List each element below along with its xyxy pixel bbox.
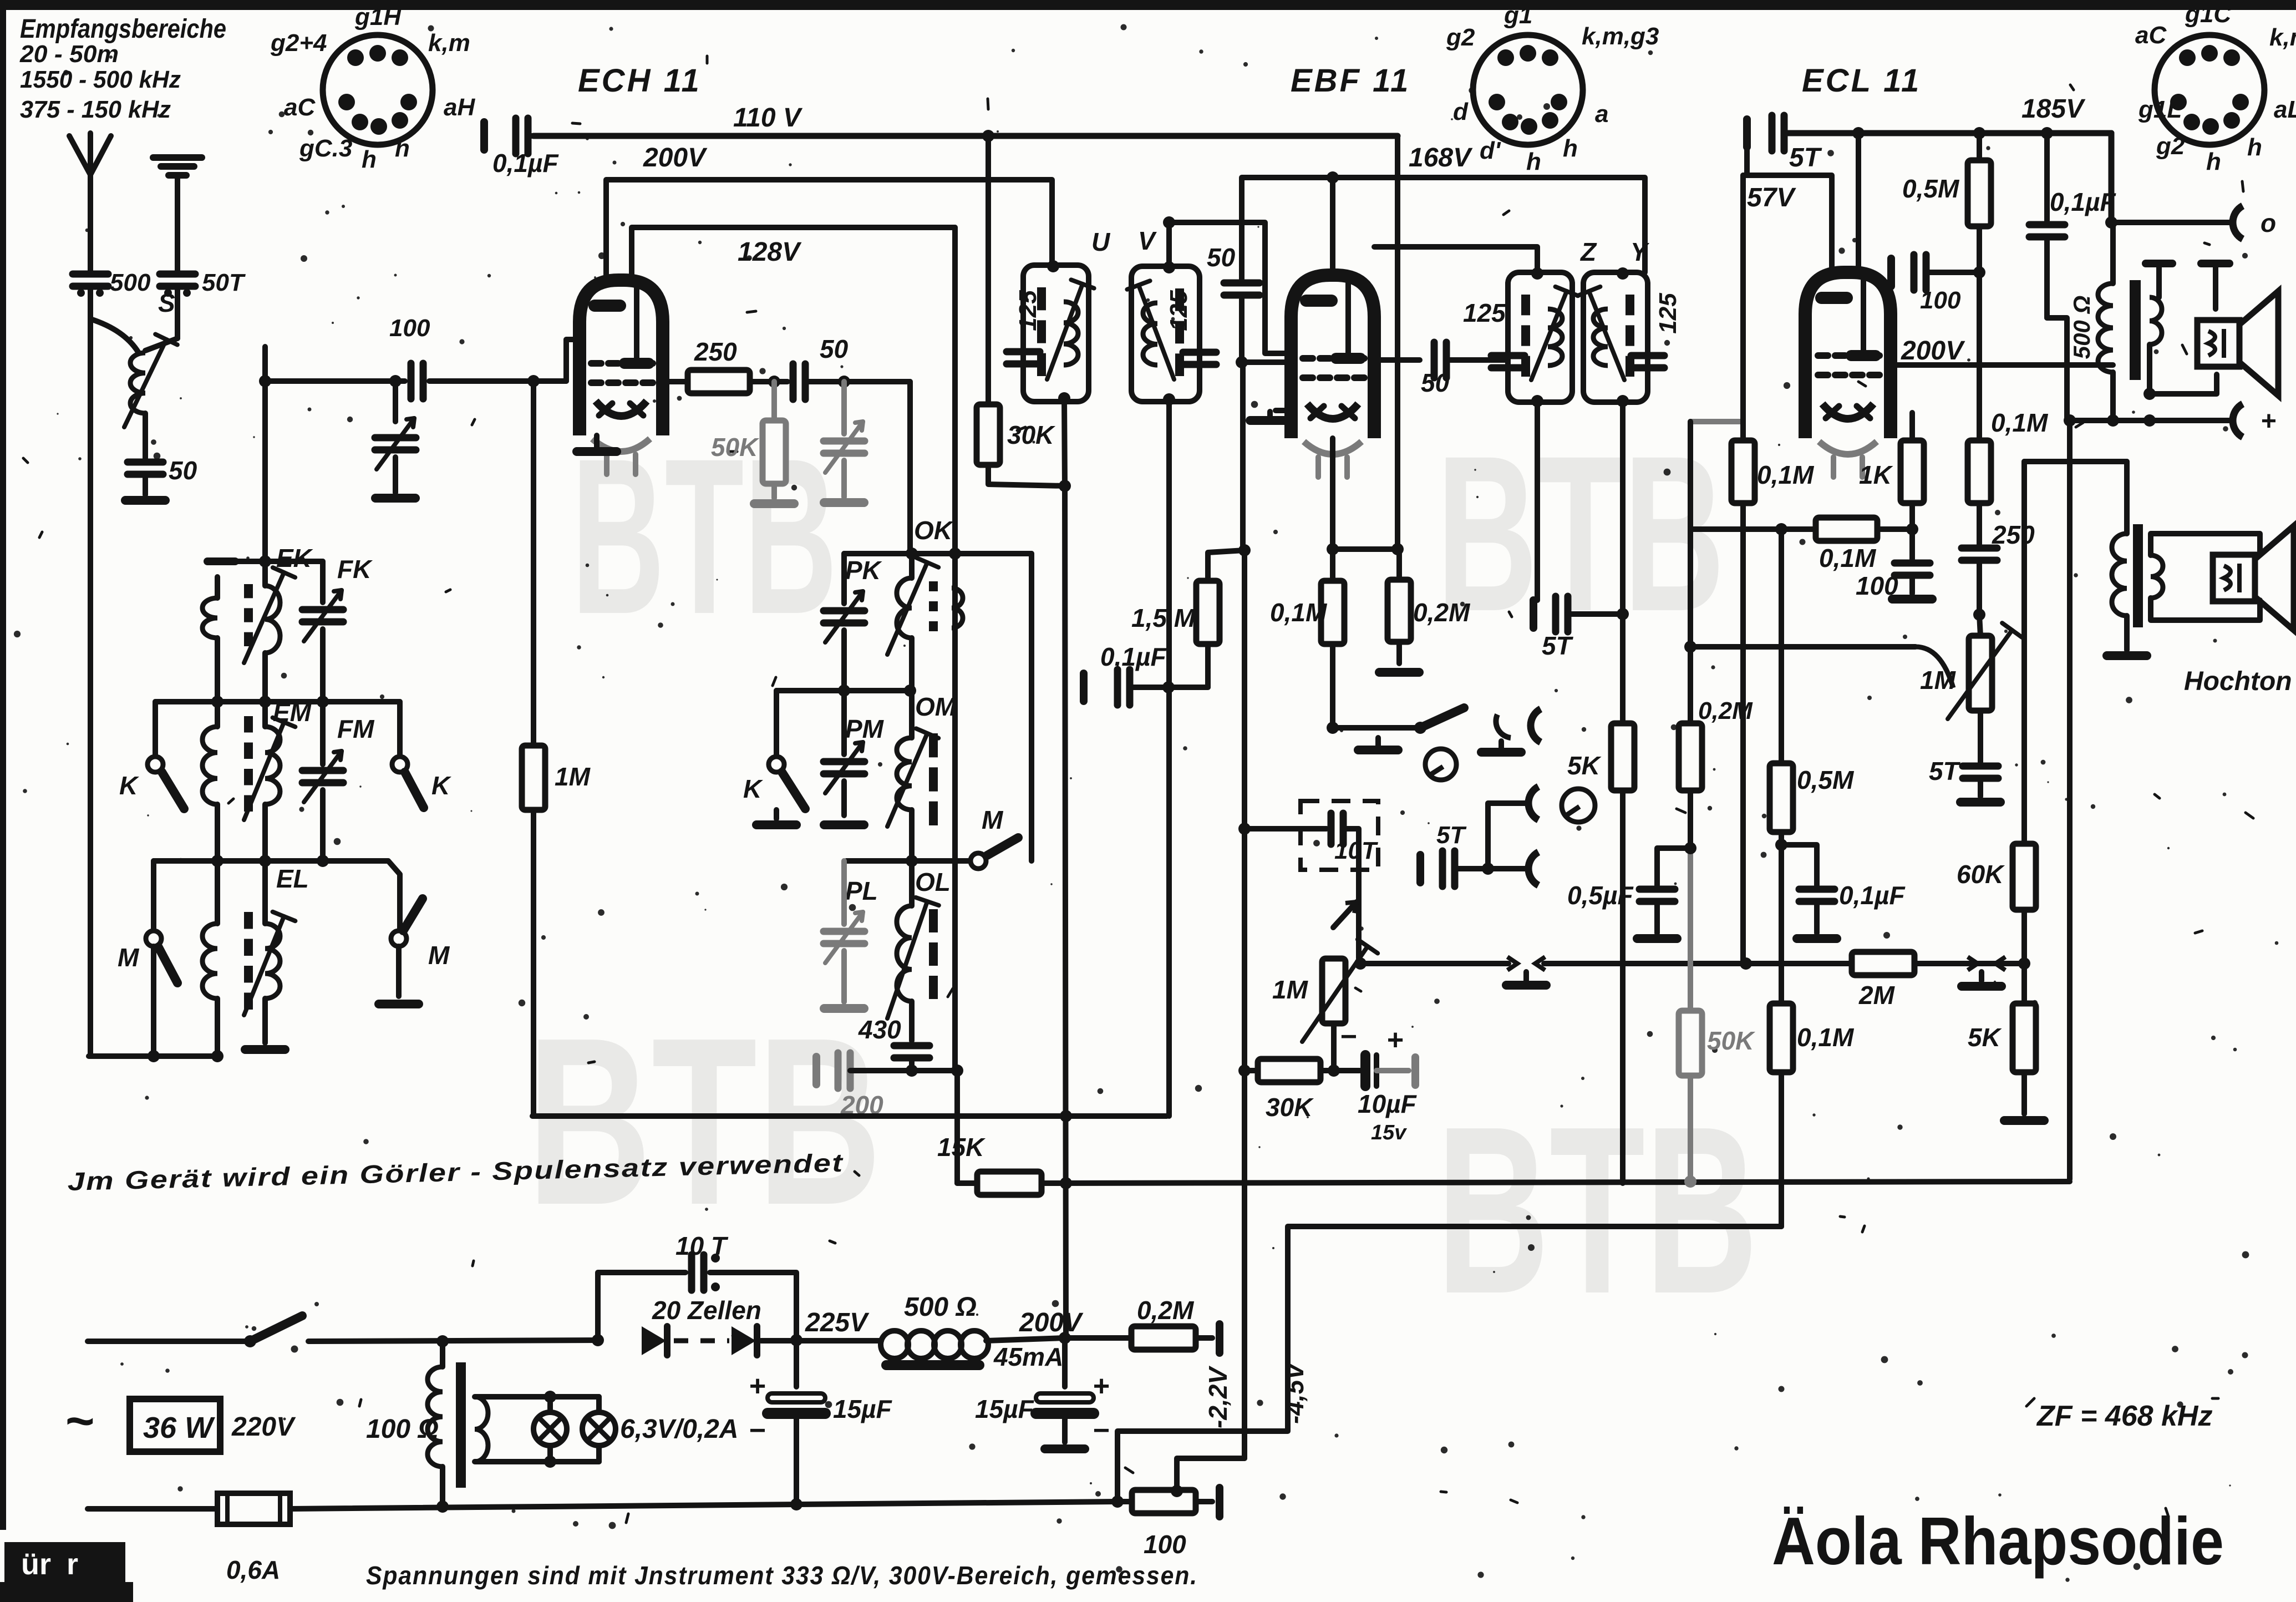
transformer EK bbox=[202, 561, 295, 702]
svg-text:36 W: 36 W bbox=[143, 1411, 215, 1444]
transformer OM bbox=[887, 691, 938, 861]
svg-text:0,1µF: 0,1µF bbox=[492, 149, 559, 178]
label 50 coupling bbox=[820, 334, 849, 363]
resistor 0,2M psu bbox=[1065, 1324, 1220, 1353]
box 36W bbox=[130, 1399, 220, 1452]
resistor 250 anode bbox=[662, 370, 750, 393]
resistor 60K bbox=[2013, 844, 2036, 970]
label 50K bbox=[711, 433, 759, 462]
wire gnd stub tone bbox=[1958, 957, 2024, 986]
svg-text:1M: 1M bbox=[555, 762, 591, 791]
wire K-row bbox=[155, 696, 400, 708]
label 5T fb bbox=[1789, 143, 1822, 173]
label 200V bbox=[643, 143, 708, 173]
wire AVC line to pot bbox=[1684, 641, 1953, 688]
wire screen drop bbox=[1395, 136, 1400, 549]
svg-text:k,m: k,m bbox=[428, 29, 470, 57]
label 50 bbox=[169, 456, 197, 485]
fuse 0,6A bbox=[217, 1493, 290, 1524]
pickup symbol Q1 bbox=[1425, 749, 1456, 780]
svg-text:110 V: 110 V bbox=[733, 103, 803, 133]
svg-text:200V: 200V bbox=[1901, 336, 1965, 366]
label 0,1M tone bbox=[1991, 408, 2049, 437]
wire anode 200V bbox=[1891, 362, 2113, 368]
label 0,1uF bbox=[492, 149, 559, 178]
svg-text:Hochton: Hochton bbox=[2184, 667, 2292, 696]
label 5K bbox=[1567, 751, 1602, 780]
svg-text:0,2M: 0,2M bbox=[1137, 1296, 1195, 1325]
svg-text:ZF = 468 kHz: ZF = 468 kHz bbox=[2036, 1400, 2212, 1432]
wire sec to speaker bbox=[2143, 344, 2217, 400]
svg-text:h: h bbox=[2206, 148, 2221, 175]
diode D1 bbox=[642, 1326, 667, 1355]
svg-text:+: + bbox=[1093, 1370, 1110, 1402]
svg-text:0,5M: 0,5M bbox=[1797, 765, 1855, 794]
svg-text:OM: OM bbox=[915, 692, 957, 721]
svg-text:15K: 15K bbox=[937, 1133, 986, 1162]
wire 128V rail bbox=[632, 227, 955, 280]
wire right return bbox=[2067, 420, 2073, 1179]
transformer OK bbox=[887, 554, 963, 691]
ground sw2 bbox=[1481, 741, 1521, 752]
svg-text:ECL 11: ECL 11 bbox=[1802, 63, 1921, 99]
svg-text:U: U bbox=[1091, 227, 1111, 256]
trimmer PM bbox=[824, 691, 865, 825]
svg-text:EK: EK bbox=[276, 544, 313, 572]
label 225V bbox=[805, 1308, 870, 1337]
wire pot bottom bbox=[1328, 1023, 1340, 1077]
capacitor 100 cathode bbox=[1892, 529, 1932, 599]
svg-text:g2: g2 bbox=[2156, 133, 2185, 160]
label 1M volume bbox=[1272, 975, 1309, 1004]
svg-text:h: h bbox=[2247, 134, 2262, 161]
capacitor 430 bbox=[894, 1046, 929, 1077]
svg-text:0,1µF: 0,1µF bbox=[1839, 881, 1906, 910]
svg-text:EL: EL bbox=[276, 864, 309, 893]
earth ground antenna bbox=[153, 158, 202, 272]
svg-text:100: 100 bbox=[1856, 571, 1898, 600]
svg-text:ür: ür bbox=[21, 1548, 51, 1581]
capacitor 5T feedback bbox=[1747, 115, 1797, 151]
svg-text:−: − bbox=[749, 1415, 766, 1447]
svg-text:g2+4: g2+4 bbox=[270, 29, 327, 57]
wire Z bottom to 5T bbox=[1533, 402, 1629, 632]
label 30K bbox=[1007, 420, 1055, 449]
svg-text:375 - 150 kHz: 375 - 150 kHz bbox=[20, 96, 171, 123]
wire 168V rail bbox=[1242, 171, 1645, 272]
wire EBF anode top bbox=[1330, 178, 1335, 275]
label Y bbox=[1630, 237, 1650, 266]
svg-text:50: 50 bbox=[820, 334, 849, 363]
capacitor 10uF bbox=[1334, 1055, 1415, 1086]
label 50 grid bbox=[1207, 243, 1236, 272]
svg-text:10µF: 10µF bbox=[1358, 1089, 1418, 1118]
svg-text:57V: 57V bbox=[1747, 183, 1796, 212]
wire Z/Y return bbox=[1690, 422, 1743, 647]
resistor 0,2M screen bbox=[1379, 549, 1419, 672]
capacitor 5T phono bbox=[1420, 851, 1494, 886]
svg-text:60K: 60K bbox=[1957, 860, 2005, 889]
wire bottom row antenna bbox=[89, 1050, 223, 1062]
label 500ohm choke bbox=[904, 1292, 977, 1322]
potentiometer 1M tone bbox=[1948, 615, 2022, 719]
label plus 2 bbox=[1093, 1370, 1110, 1402]
wire ECL g 185V bbox=[1856, 133, 1861, 272]
resistor 30K AVC bbox=[1238, 1059, 1334, 1082]
svg-text:aC: aC bbox=[2135, 22, 2167, 49]
phono arrow bbox=[1333, 870, 1359, 956]
label 0,2M AVC bbox=[1698, 697, 1753, 724]
svg-text:430: 430 bbox=[858, 1015, 901, 1044]
speaker1 field T2 bbox=[2201, 263, 2229, 309]
label -2,2V bbox=[1203, 1366, 1232, 1428]
label 10T bbox=[1334, 837, 1378, 864]
resistor 1K cathode bbox=[1901, 413, 1924, 535]
switch row detector bbox=[1327, 708, 1541, 742]
switch K left bbox=[119, 702, 184, 809]
wire grid row bbox=[265, 339, 581, 381]
svg-text:1M: 1M bbox=[1272, 975, 1309, 1004]
svg-text:Y: Y bbox=[1630, 237, 1650, 266]
lamp 2 bbox=[582, 1412, 616, 1446]
wire PK row bbox=[776, 685, 916, 697]
svg-text:BTB: BTB bbox=[527, 988, 882, 1255]
label minus 1 bbox=[749, 1415, 766, 1447]
svg-text:0,1M: 0,1M bbox=[1991, 408, 2049, 437]
svg-text:20 Zellen: 20 Zellen bbox=[652, 1296, 761, 1325]
label 50 out bbox=[1421, 368, 1450, 397]
resistor 0,1M cathode bbox=[1321, 549, 1344, 728]
wire Z top bbox=[1374, 247, 1537, 272]
label 125 V bbox=[1165, 290, 1192, 331]
svg-text:250: 250 bbox=[1992, 520, 2035, 549]
capacitor 10T bbox=[1238, 813, 1359, 870]
switch K right bbox=[392, 702, 451, 808]
socket EBF11 base diagram bbox=[1473, 35, 1583, 145]
svg-text:15v: 15v bbox=[1371, 1121, 1407, 1144]
label 5T tone bbox=[1929, 757, 1961, 785]
socket EBF11 pin labels bbox=[1446, 2, 1659, 175]
wire Y bottom down bbox=[1620, 402, 1626, 723]
label EBF 11 bbox=[1291, 63, 1410, 99]
svg-text:ECH 11: ECH 11 bbox=[578, 63, 702, 99]
label 0,5M avc2 bbox=[1797, 765, 1855, 794]
svg-text:K: K bbox=[431, 771, 451, 800]
trimmer padder gray bbox=[824, 382, 865, 503]
wire hochton loop bbox=[2151, 534, 2260, 620]
svg-text:+: + bbox=[749, 1370, 766, 1402]
wire bias drop bbox=[1242, 550, 1247, 1071]
svg-text:BTB: BTB bbox=[1436, 1077, 1758, 1344]
capacitor 0,5uF bbox=[1637, 848, 1690, 939]
choke 500ohm bbox=[881, 1331, 988, 1370]
label plus 10uF bbox=[1387, 1024, 1404, 1056]
diode D2 bbox=[732, 1326, 757, 1355]
capacitor 250 bbox=[1962, 548, 1997, 621]
label EK bbox=[276, 544, 313, 572]
wire 60K top bbox=[2021, 462, 2027, 844]
svg-text:o: o bbox=[2261, 209, 2276, 237]
svg-text:1,5 M: 1,5 M bbox=[1131, 604, 1196, 632]
svg-text:Äola Rhapsodie: Äola Rhapsodie bbox=[1772, 1503, 2224, 1579]
tube ECL11 bbox=[1805, 272, 1891, 477]
label 1,5M bbox=[1131, 604, 1196, 632]
capacitor 200 padder bbox=[816, 1053, 963, 1088]
svg-text:6,3V/0,2A: 6,3V/0,2A bbox=[620, 1415, 738, 1444]
svg-text:250: 250 bbox=[694, 337, 737, 366]
IF transformer U bbox=[1007, 260, 1094, 404]
svg-text:OK: OK bbox=[914, 516, 954, 545]
label OL bbox=[915, 868, 951, 896]
label 1M bbox=[555, 762, 591, 791]
wire U bottom to 30K node bbox=[1064, 398, 1065, 486]
svg-text:5T: 5T bbox=[1789, 143, 1822, 173]
wire bus A bbox=[532, 1110, 1167, 1122]
label 100 cathode bbox=[1856, 571, 1898, 600]
label 0,1M ecl bbox=[1757, 460, 1815, 489]
svg-text:185V: 185V bbox=[2021, 94, 2086, 124]
terminal T antenna coil bbox=[207, 555, 323, 567]
label OM bbox=[915, 692, 957, 721]
svg-text:-4,5V: -4,5V bbox=[1280, 1361, 1309, 1424]
svg-text:0,1M: 0,1M bbox=[1757, 460, 1815, 489]
svg-text:g1C: g1C bbox=[2185, 1, 2232, 28]
node OK bbox=[844, 516, 1032, 560]
wire 1M grid leak drop bbox=[527, 375, 540, 746]
wire choke to 200V bbox=[986, 1338, 1065, 1341]
wire main B+ drop bbox=[1059, 486, 1071, 1344]
wire tuned circuit drop bbox=[259, 347, 271, 561]
resistor 30K bbox=[977, 136, 1071, 492]
label -4,5V bbox=[1280, 1361, 1309, 1424]
IF transformer Y bbox=[1578, 267, 1664, 407]
label 0,2M psu bbox=[1137, 1296, 1195, 1325]
tube ECH11 bbox=[580, 280, 663, 474]
capacitor 50 to ground bbox=[125, 462, 165, 500]
svg-text:EBF 11: EBF 11 bbox=[1291, 63, 1410, 99]
capacitor 5T tone bbox=[1960, 711, 2000, 802]
svg-text:g2: g2 bbox=[1446, 24, 1475, 51]
svg-text:125: 125 bbox=[1463, 298, 1506, 327]
label EM bbox=[273, 698, 312, 727]
label 45mA bbox=[993, 1342, 1063, 1371]
svg-text:0,1µF: 0,1µF bbox=[1100, 642, 1167, 671]
svg-text:-2,2V: -2,2V bbox=[1203, 1366, 1232, 1428]
speaker 2 hochton bbox=[2213, 526, 2294, 630]
svg-text:g1L: g1L bbox=[2138, 96, 2182, 123]
label 250 bbox=[1992, 520, 2035, 549]
svg-text:d: d bbox=[1453, 98, 1469, 125]
lamp 1 bbox=[534, 1412, 567, 1446]
wire mains top bbox=[88, 1316, 604, 1347]
svg-text:5T: 5T bbox=[1929, 757, 1961, 785]
wire mains bottom bbox=[88, 1506, 217, 1512]
svg-text:1M: 1M bbox=[1920, 666, 1957, 694]
label 0,1M bias bbox=[1797, 1023, 1855, 1052]
title Aola Rhapsodie bbox=[1772, 1503, 2224, 1579]
resistor 5K bbox=[1611, 723, 1634, 1183]
resistor 0,1M tone bbox=[1968, 272, 1991, 544]
wire osc line down bbox=[955, 554, 957, 1183]
socket ECL11 base diagram bbox=[2155, 35, 2264, 145]
svg-text:50: 50 bbox=[1421, 368, 1450, 397]
speaker 1 bbox=[2197, 291, 2278, 396]
label 128V bbox=[738, 237, 802, 267]
svg-text:Z: Z bbox=[1579, 237, 1597, 266]
wire 1M to AVC bus bbox=[531, 810, 536, 1116]
label 430 bbox=[858, 1015, 901, 1044]
capacitor 100 coupling2 bbox=[1891, 255, 1979, 290]
capacitor 50 grid EBF bbox=[1224, 220, 1291, 368]
wire EBF cathode bbox=[1327, 438, 1404, 555]
svg-text:k,m,g3: k,m,g3 bbox=[1582, 23, 1659, 50]
svg-text:k,m: k,m bbox=[2269, 24, 2296, 51]
label 100 bbox=[389, 315, 430, 342]
svg-text:45mA: 45mA bbox=[993, 1342, 1063, 1371]
ground EL secondary bbox=[245, 1045, 285, 1054]
svg-text:g1H: g1H bbox=[354, 3, 402, 31]
svg-text:30K: 30K bbox=[1266, 1093, 1314, 1122]
svg-text:d': d' bbox=[1480, 137, 1501, 164]
label 125 U bbox=[1014, 290, 1042, 331]
wire -4,5V bbox=[1117, 1226, 1781, 1501]
svg-text:125: 125 bbox=[1165, 290, 1192, 331]
label Hochton bbox=[2184, 667, 2292, 696]
svg-text:g1: g1 bbox=[1503, 2, 1532, 29]
wire to 225V node bbox=[761, 1334, 881, 1346]
label 1M tone bbox=[1920, 666, 1957, 694]
label ECL 11 bbox=[1802, 63, 1921, 99]
svg-text:h: h bbox=[362, 146, 377, 173]
svg-text:30K: 30K bbox=[1007, 420, 1055, 449]
wire M-row mixer bbox=[846, 855, 972, 867]
label 100 c2 bbox=[1920, 287, 1961, 314]
label 50T bbox=[202, 269, 246, 296]
socket ECH11 pin labels bbox=[270, 3, 475, 173]
label 250 bbox=[694, 337, 737, 366]
wire output top bbox=[2105, 133, 2117, 229]
capacitor 50 coupling EBF out bbox=[1374, 342, 1508, 378]
svg-text:BTB: BTB bbox=[1436, 409, 1725, 657]
label 15K bbox=[937, 1133, 986, 1162]
label 200V psu bbox=[1019, 1308, 1084, 1337]
antenna bbox=[69, 133, 111, 272]
svg-text:Spannungen sind mit Jnstrument: Spannungen sind mit Jnstrument 333 Ω/V, … bbox=[366, 1561, 1198, 1590]
label 5K out bbox=[1968, 1023, 2002, 1052]
svg-text:FK: FK bbox=[337, 555, 373, 584]
svg-text:10T: 10T bbox=[1334, 837, 1378, 864]
svg-text:0,1M: 0,1M bbox=[1819, 544, 1877, 572]
label 220V bbox=[231, 1412, 296, 1442]
label FM bbox=[337, 714, 375, 743]
ground sw1 bbox=[1358, 738, 1398, 750]
feedback box 57V bbox=[1743, 147, 1832, 422]
label 0,1M cathode bbox=[1270, 598, 1328, 627]
wire M-row bbox=[154, 855, 400, 932]
capacitor 15uF 2 bbox=[1036, 1338, 1094, 1449]
capacitor 50T bbox=[160, 274, 195, 338]
svg-text:20 - 50m: 20 - 50m bbox=[19, 40, 119, 68]
resistor 2M bbox=[1746, 952, 2024, 975]
heater lamps loop bbox=[475, 1391, 599, 1468]
label 50K gray bbox=[1707, 1026, 1755, 1055]
label 200V anode bbox=[1901, 336, 1965, 366]
wire 0,1uF drop bbox=[2044, 133, 2050, 221]
label PM bbox=[845, 714, 885, 743]
ground ECH cathode bbox=[577, 435, 617, 452]
label ~ bbox=[65, 1393, 95, 1449]
label 15uF 2 bbox=[975, 1395, 1035, 1423]
resistor 1,5M bbox=[1162, 550, 1244, 693]
socket ECL11 pin labels bbox=[2135, 1, 2296, 175]
ground AVC break bbox=[1506, 972, 1546, 985]
label 5T Z bbox=[1542, 631, 1574, 660]
svg-text:K: K bbox=[743, 774, 763, 803]
resistor 0,1M bias bbox=[1770, 845, 1793, 1226]
transformer OL bbox=[887, 861, 939, 1041]
label 185V bbox=[2021, 94, 2086, 124]
resistor 0,1M ecl grid bbox=[1731, 422, 1755, 964]
label 0,1uF det bbox=[1100, 642, 1167, 671]
loop 10T bbox=[598, 1254, 796, 1340]
wire diode bias chain bbox=[1238, 362, 1251, 556]
svg-text:h: h bbox=[1563, 135, 1578, 162]
resistor 50K gray bbox=[1679, 848, 1702, 1182]
svg-text:M: M bbox=[428, 941, 450, 970]
label Z bbox=[1579, 237, 1597, 266]
resistor 100 bias bbox=[1117, 1485, 1220, 1517]
transformer output 500ohm bbox=[2098, 222, 2162, 420]
svg-text:0,1M: 0,1M bbox=[1270, 598, 1328, 627]
svg-text:Empfangsbereiche: Empfangsbereiche bbox=[20, 14, 226, 44]
svg-text:−: − bbox=[1340, 1021, 1357, 1053]
svg-text:−: − bbox=[1093, 1415, 1110, 1447]
phono jack arcs bbox=[1488, 787, 1538, 885]
wire plus bus bbox=[2064, 404, 2276, 437]
label 0,5uF bbox=[1567, 881, 1634, 910]
svg-text:500 Ω: 500 Ω bbox=[904, 1292, 977, 1322]
pickup symbol Q2 bbox=[1562, 789, 1595, 822]
wire output terminal o bbox=[2111, 206, 2276, 239]
label 0,1M coupling bbox=[1819, 544, 1877, 572]
transformer EM bbox=[202, 702, 295, 861]
svg-text:OL: OL bbox=[915, 868, 951, 896]
svg-text:100 Ω: 100 Ω bbox=[366, 1415, 439, 1444]
label 6,3V/0,2A bbox=[620, 1415, 738, 1444]
capacitor 0,1uF ecl bbox=[2029, 225, 2067, 420]
svg-text:h: h bbox=[395, 135, 410, 162]
wire IF2 bus vertical bbox=[1166, 402, 1172, 1116]
capacitor 500 antenna series bbox=[73, 274, 108, 381]
svg-text:50T: 50T bbox=[202, 269, 246, 296]
socket ECH11 base diagram bbox=[323, 35, 433, 145]
trimmer PK bbox=[824, 554, 865, 691]
wire osc coupling down bbox=[907, 382, 913, 554]
label 1K bbox=[1859, 460, 1893, 489]
variable capacitor tuning bbox=[375, 375, 416, 498]
label minus 10uF bbox=[1340, 1021, 1357, 1053]
svg-text:0,5M: 0,5M bbox=[1902, 174, 1960, 203]
dashed box 10T bbox=[1301, 801, 1378, 870]
label 100 bias bbox=[1144, 1530, 1186, 1559]
svg-text:200V: 200V bbox=[643, 143, 708, 173]
resistor 0,2M AVC bbox=[1679, 647, 1702, 854]
svg-text:PM: PM bbox=[845, 714, 885, 743]
label FK bbox=[337, 555, 373, 584]
ground K3 bbox=[756, 810, 796, 825]
label 0,5M top bbox=[1902, 174, 1960, 203]
resistor 0,5M top bbox=[1968, 133, 1991, 278]
